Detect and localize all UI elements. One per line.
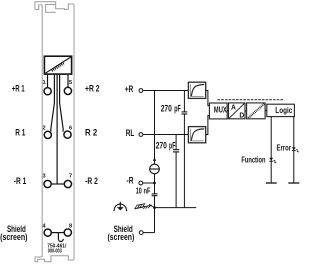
svg-text:5: 5 — [69, 80, 72, 86]
svg-text:7: 7 — [69, 174, 72, 180]
svg-text:RL: RL — [126, 128, 135, 138]
svg-text:000-003: 000-003 — [48, 249, 62, 255]
svg-text:Logic: Logic — [275, 105, 292, 115]
svg-text:D: D — [239, 111, 245, 120]
svg-text:-R 1: -R 1 — [14, 176, 27, 186]
svg-text:8: 8 — [69, 223, 72, 229]
svg-text:10: 10 — [136, 187, 142, 196]
svg-text:270: 270 — [156, 141, 167, 151]
svg-text:+R 1: +R 1 — [12, 84, 25, 94]
svg-text:3: 3 — [42, 174, 45, 180]
svg-text:Error: Error — [277, 143, 292, 153]
svg-text:-R: -R — [127, 176, 134, 186]
svg-text:-R 2: -R 2 — [85, 176, 98, 186]
svg-text:+R: +R — [125, 84, 134, 94]
svg-text:6: 6 — [69, 125, 72, 131]
svg-text:MUX: MUX — [214, 105, 227, 115]
svg-text:270: 270 — [161, 103, 172, 113]
svg-text:(screen): (screen) — [108, 232, 135, 242]
svg-text:Function: Function — [241, 154, 265, 164]
svg-text:+R 2: +R 2 — [85, 84, 100, 94]
svg-text:1: 1 — [42, 80, 45, 86]
svg-text:pF: pF — [174, 103, 181, 113]
svg-text:pF: pF — [169, 141, 176, 151]
svg-text:(screen): (screen) — [0, 232, 27, 242]
svg-text:nF: nF — [144, 187, 151, 196]
svg-text:R 2: R 2 — [85, 128, 97, 138]
svg-text:R 1: R 1 — [15, 128, 25, 138]
svg-text:2: 2 — [42, 125, 45, 131]
svg-text:A: A — [231, 102, 237, 111]
